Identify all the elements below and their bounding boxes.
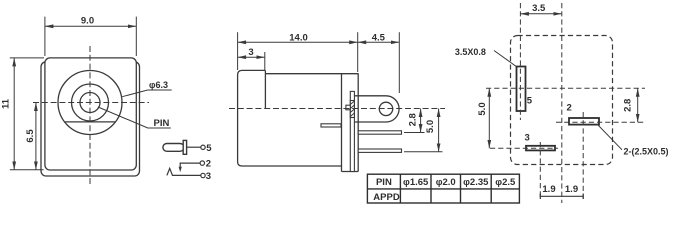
svg-text:φ1.65: φ1.65: [403, 177, 429, 188]
terminal 2 with arrow: [180, 163, 200, 169]
dimension 2.8 (middle): [404, 109, 425, 133]
dimension 14.0 / 4.5 extension lines: [238, 32, 400, 93]
dimension 11: [10, 58, 44, 170]
jack rear flange (behind body): [41, 62, 140, 176]
middle view centerline: [229, 108, 445, 110]
svg-text:9.0: 9.0: [81, 16, 94, 27]
body top edge: [265, 73, 358, 75]
barrel + body outline: [238, 70, 359, 171]
bottom tab closure: [342, 171, 359, 173]
centerline vertical: [89, 46, 91, 186]
solder lug with hole: [351, 96, 399, 122]
svg-text:3: 3: [206, 171, 211, 182]
left leg pin: [321, 124, 341, 127]
metal plate edge-on: [350, 91, 354, 171]
svg-text:5: 5: [527, 95, 533, 106]
dimension 5.0 left: [488, 88, 490, 148]
svg-text:2-(2.5X0.5): 2-(2.5X0.5): [624, 147, 669, 157]
svg-text:φ2.35: φ2.35: [463, 177, 489, 188]
right pin lower: [358, 149, 401, 152]
terminal 3 with switch zigzag: [167, 168, 201, 175]
hatched cross-section strip: [350, 101, 354, 118]
dimension 9.0: [45, 17, 136, 56]
svg-text:1.9: 1.9: [542, 184, 555, 195]
terminal 5: [201, 145, 205, 149]
label 3.5X0.8 leader: [494, 51, 516, 67]
axis pin3 vertical: [539, 142, 541, 199]
dimension 3.5 top: [520, 13, 561, 15]
svg-text:3.5: 3.5: [532, 3, 546, 14]
label phi6.3 leader: [122, 90, 172, 97]
axis pin5 vertical: [519, 3, 521, 120]
axis pin2 vertical: [582, 112, 584, 199]
axis center vertical: [561, 3, 563, 203]
jack body (front face): [45, 58, 136, 170]
pin2 slot: [569, 118, 599, 125]
svg-text:5.0: 5.0: [425, 120, 436, 133]
barrel opening circle phi6.3: [58, 71, 122, 135]
dimensions 1.9 / 1.9 bottom: [540, 194, 584, 200]
dim line 14.0: [238, 41, 358, 43]
axis pin2 horizontal: [556, 121, 644, 123]
dim line 4.5: [358, 41, 400, 43]
axis pin5 horizontal: [486, 87, 645, 89]
svg-text:3: 3: [248, 47, 253, 58]
pin5 slot 3.5x0.8: [517, 67, 526, 112]
svg-text:2: 2: [206, 159, 211, 170]
chord (flat) in barrel opening: [65, 121, 116, 123]
center pin circle: [80, 93, 100, 113]
axis pin3 horizontal: [490, 147, 558, 149]
svg-text:3.5X0.8: 3.5X0.8: [455, 47, 486, 57]
right outer edge: [357, 74, 359, 172]
dimension 2.8 right: [637, 88, 639, 122]
svg-text:PIN: PIN: [154, 118, 170, 129]
inner sleeve circle: [72, 84, 109, 121]
dimension 5.0 (middle): [404, 109, 443, 152]
svg-text:2: 2: [567, 103, 572, 114]
svg-text:1.9: 1.9: [565, 184, 578, 195]
svg-text:6.5: 6.5: [25, 129, 36, 143]
center contact tab: [346, 105, 350, 110]
svg-text:φ2.5: φ2.5: [495, 177, 516, 188]
svg-text:φ6.3: φ6.3: [149, 80, 168, 90]
dimension 6.5: [35, 103, 37, 170]
pin3 slot: [526, 146, 555, 151]
svg-text:3: 3: [525, 132, 530, 143]
body outline dashed: [511, 36, 613, 165]
label PIN leader: [98, 107, 171, 128]
barrel rear edge line: [264, 70, 266, 108]
svg-text:11: 11: [1, 98, 12, 109]
dim line 3: [238, 56, 265, 58]
svg-text:2.8: 2.8: [407, 113, 418, 126]
svg-text:5.0: 5.0: [477, 102, 488, 115]
svg-text:4.5: 4.5: [372, 33, 386, 44]
body rear inner line: [341, 74, 343, 172]
schematic: plug symbol: [163, 140, 201, 154]
svg-text:14.0: 14.0: [289, 33, 308, 44]
svg-text:5: 5: [206, 143, 212, 154]
svg-text:φ2.0: φ2.0: [436, 177, 456, 188]
label 2-(2.5X0.5) leader: [598, 125, 623, 150]
svg-text:2.8: 2.8: [622, 99, 633, 112]
svg-text:PIN: PIN: [376, 177, 392, 188]
centerline horizontal: [33, 102, 149, 104]
svg-text:APPD: APPD: [373, 192, 400, 203]
right pin upper: [358, 131, 401, 134]
